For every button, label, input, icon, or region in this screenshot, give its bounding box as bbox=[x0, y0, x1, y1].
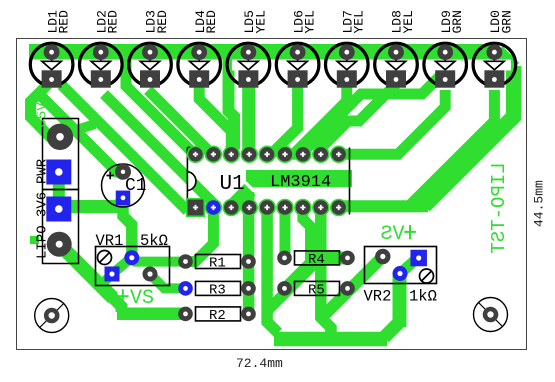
wire LD2 diag to IC pin2 bbox=[104, 94, 213, 205]
pad R3 left bbox=[178, 281, 193, 296]
wire band taper to pin3 bbox=[231, 190, 250, 209]
pin 17 of U1 bbox=[205, 146, 221, 162]
resistor R5 bbox=[295, 281, 340, 295]
svg-text:GRN: GRN bbox=[450, 10, 465, 33]
svg-text:1kΩ: 1kΩ bbox=[409, 288, 437, 306]
wire LD7 to IC pin13 bbox=[285, 86, 347, 154]
svg-text:YEL: YEL bbox=[303, 10, 318, 33]
svg-text:LIPO-TST: LIPO-TST bbox=[488, 162, 510, 253]
svg-text:GRN: GRN bbox=[499, 10, 514, 33]
op-amp U1 outline bbox=[187, 148, 349, 215]
wire bottom band bbox=[274, 332, 387, 347]
label PWR bbox=[35, 158, 51, 184]
pin 8 of U1 bbox=[313, 200, 329, 216]
board outline bbox=[17, 39, 527, 350]
dimension 44.5mm bbox=[532, 180, 547, 227]
wire LIPO pad diagonal bbox=[59, 244, 113, 298]
mounting hole bottom-left bbox=[35, 299, 69, 333]
pin 11 of U1 bbox=[313, 146, 329, 162]
pad U5V of PWR bbox=[47, 124, 73, 150]
LED LD3 bbox=[129, 43, 172, 88]
svg-text:R1: R1 bbox=[209, 256, 226, 272]
pin 2 of U1 bbox=[205, 200, 221, 216]
svg-text:R2: R2 bbox=[209, 308, 226, 324]
wire VR1 right pad to R3 left bbox=[150, 274, 186, 288]
wire LD3 to IC pin17 bbox=[148, 90, 213, 154]
label YEL of LD8 bbox=[401, 10, 416, 33]
pad R4 left bbox=[277, 251, 292, 266]
label LD4 bbox=[193, 10, 208, 34]
label +VS left bbox=[117, 289, 129, 303]
connector PWR outline bbox=[43, 119, 79, 190]
wire VR2 top pad diag to pin8 bus bbox=[322, 257, 383, 318]
label YEL of LD7 bbox=[352, 10, 367, 33]
svg-text:RED: RED bbox=[57, 10, 72, 34]
wire anode bus corner bbox=[497, 52, 514, 69]
label RED of LD3 bbox=[155, 10, 170, 34]
svg-text:RED: RED bbox=[204, 10, 219, 34]
label U5V bbox=[35, 102, 51, 128]
wire LD1 diag to IC pin1 bbox=[62, 85, 188, 211]
pad R5 left bbox=[277, 281, 292, 296]
svg-text:5kΩ: 5kΩ bbox=[140, 232, 168, 250]
wire VR1 square to wiper bbox=[112, 259, 131, 275]
label C1 plus sign bbox=[107, 172, 115, 179]
wire C1 minus down to VR1 wiper bbox=[123, 202, 132, 253]
pad R1 right bbox=[241, 254, 256, 269]
wire bus drop to pin16 jog bbox=[229, 58, 235, 153]
svg-text:VS: VS bbox=[380, 223, 404, 246]
wire U5V pad stub bbox=[61, 124, 95, 135]
svg-text:VR2: VR2 bbox=[364, 288, 392, 306]
pad VR1 left bbox=[105, 267, 120, 282]
pad R3 right bbox=[241, 281, 256, 296]
pin 16 of U1 bbox=[223, 146, 239, 162]
wire LD5 to IC pin15 bbox=[242, 84, 255, 153]
wire pin7 to R5 left bbox=[285, 211, 311, 289]
svg-text:VS: VS bbox=[130, 287, 154, 310]
svg-text:PWR: PWR bbox=[35, 158, 51, 184]
capacitor C1 bbox=[102, 164, 145, 207]
pad VR2 top bbox=[375, 249, 390, 264]
pad PWR positive bbox=[46, 160, 71, 185]
wire LD0 staircase to V+ horizontal bbox=[411, 90, 495, 205]
pin 14 of U1 bbox=[259, 146, 275, 162]
pin 18 of U1 bbox=[188, 146, 204, 162]
pad C1 minus bbox=[116, 191, 131, 206]
wire green mark near LIPO label bbox=[30, 236, 39, 244]
pin 4 of U1 bbox=[241, 200, 257, 216]
pin 9 of U1 bbox=[331, 200, 347, 216]
resistor R3 bbox=[196, 281, 241, 295]
label LIPO 3V6 bbox=[35, 192, 51, 259]
svg-text:72.4mm: 72.4mm bbox=[236, 356, 283, 371]
wire VR1 square stub bbox=[99, 275, 111, 287]
pin 6 of U1 bbox=[277, 200, 293, 216]
label LD2 bbox=[95, 10, 110, 33]
trimmer VR1 outline bbox=[96, 247, 170, 286]
svg-text:YEL: YEL bbox=[352, 10, 367, 33]
svg-text:R3: R3 bbox=[209, 282, 226, 298]
pad R2 left bbox=[178, 307, 193, 322]
wire bus drop staircase to pin12 bbox=[303, 57, 459, 154]
wire branch to C1 plus bbox=[39, 94, 123, 173]
wire pin6 to R4 left bbox=[280, 211, 291, 253]
trimmer VR2 outline bbox=[365, 247, 437, 284]
pad LIPO negative bbox=[47, 232, 72, 257]
resistor R2 bbox=[196, 307, 241, 321]
label RED of LD4 bbox=[204, 10, 219, 34]
svg-text:LIPO 3V6: LIPO 3V6 bbox=[35, 192, 51, 259]
resistor R4 bbox=[295, 251, 340, 265]
label YEL of LD6 bbox=[303, 10, 318, 33]
wire VR2 wiper to blue square bbox=[400, 258, 418, 274]
LED LD0 bbox=[473, 43, 516, 88]
wire up to VR2 wiper bbox=[393, 276, 407, 328]
label LD7 bbox=[341, 10, 356, 33]
connector LIPO outline bbox=[43, 190, 79, 264]
label LD0 bbox=[488, 10, 503, 33]
wire anode bus top band bbox=[29, 44, 499, 60]
wire anode bus right band and V+ diagonal bbox=[424, 66, 514, 206]
label LD3 bbox=[144, 10, 159, 33]
label LD5 bbox=[242, 10, 257, 33]
label LD8 bbox=[390, 10, 405, 33]
label YEL of LD5 bbox=[253, 10, 268, 33]
svg-text:44.5mm: 44.5mm bbox=[532, 180, 547, 227]
wire LD6 to IC pin14 bbox=[267, 86, 298, 154]
wire VR1 wiper to R1 left bbox=[132, 258, 186, 262]
pin 12 of U1 bbox=[295, 146, 311, 162]
LED LD7 bbox=[326, 43, 369, 88]
wire IC middle copper plane bbox=[246, 170, 352, 187]
VR2 screw bbox=[420, 269, 434, 283]
pad R2 right bbox=[241, 307, 256, 322]
wire LD8 staircase to pin11 bbox=[321, 84, 396, 154]
LED LD4 bbox=[178, 43, 221, 88]
wire V+ horizontal to pin9 bbox=[340, 200, 428, 212]
wire PWR to LIPO squares bbox=[53, 183, 65, 200]
wire through R4 body bbox=[311, 252, 348, 265]
wire LIPO diag corner bbox=[110, 295, 122, 312]
svg-text:U5V: U5V bbox=[35, 102, 51, 128]
label GRN of LD9 bbox=[450, 10, 465, 33]
pin 1 of U1 bbox=[187, 199, 205, 217]
pin 10 of U1 bbox=[331, 146, 347, 162]
wire pin8 down to band bbox=[321, 211, 331, 333]
label LD9 bbox=[439, 10, 454, 33]
wire pin4 bus through R right pads bbox=[243, 192, 255, 315]
svg-text:RED: RED bbox=[155, 10, 170, 34]
wire bottom band corner up bbox=[384, 322, 400, 338]
LED LD9 bbox=[424, 43, 467, 88]
pad VR1 wiper bbox=[124, 250, 139, 265]
svg-text:C1: C1 bbox=[125, 176, 147, 196]
pad R1 left bbox=[178, 254, 193, 269]
svg-text:YEL: YEL bbox=[253, 10, 268, 33]
pad R5 right bbox=[340, 281, 355, 296]
label LD1 bbox=[45, 10, 60, 34]
label RED of LD1 bbox=[57, 10, 72, 34]
label RED of LD2 bbox=[106, 10, 121, 34]
pad VR2 wiper bbox=[393, 266, 408, 281]
svg-text:YEL: YEL bbox=[401, 10, 416, 33]
LED LD8 bbox=[375, 43, 418, 88]
pin 5 of U1 bbox=[259, 200, 275, 216]
svg-text:RED: RED bbox=[106, 10, 121, 34]
wire LD4 to IC pin16 bbox=[199, 86, 231, 153]
label GRN of LD0 bbox=[499, 10, 514, 33]
svg-text:R4: R4 bbox=[308, 252, 325, 268]
wire LD9 staircase to pin10 bbox=[339, 90, 446, 154]
label LD6 bbox=[291, 10, 306, 33]
svg-text:R5: R5 bbox=[308, 282, 325, 298]
wire R4 right diag to bottom bus bbox=[267, 263, 316, 312]
pin 7 of U1 bbox=[295, 200, 311, 216]
pin 13 of U1 bbox=[277, 146, 293, 162]
LED LD6 bbox=[276, 43, 319, 88]
mounting hole bottom-right bbox=[474, 298, 508, 332]
wire bus drop to IC pin18 bbox=[126, 59, 196, 154]
svg-text:LM3914: LM3914 bbox=[270, 173, 331, 192]
pad C1 plus bbox=[115, 164, 131, 180]
LED LD1 bbox=[30, 43, 73, 88]
pin 3 of U1 bbox=[223, 200, 239, 216]
wire pin5 down bbox=[267, 211, 278, 333]
svg-text:VR1: VR1 bbox=[96, 232, 124, 250]
svg-text:U1: U1 bbox=[220, 173, 245, 196]
label LIPO-TST mirrored bbox=[488, 162, 510, 253]
pin 15 of U1 bbox=[241, 146, 257, 162]
label +VS right mirrored bbox=[404, 225, 416, 239]
wire LIPO square to C1 minus bbox=[59, 201, 123, 207]
pad VR1 right bbox=[143, 267, 158, 282]
wire LD1 cathode to U5V bbox=[31, 84, 61, 137]
resistor R1 bbox=[196, 255, 241, 269]
wire pin2 to R1 left bbox=[186, 211, 214, 262]
LED LD2 bbox=[80, 43, 123, 88]
pad VR2 right bbox=[410, 250, 427, 267]
LED LD5 bbox=[227, 43, 270, 88]
pad R4 right bbox=[340, 251, 355, 266]
VR1 screw bbox=[98, 251, 112, 265]
pad LIPO positive bbox=[46, 197, 71, 222]
wire bottom left band to R2 bbox=[117, 308, 186, 321]
